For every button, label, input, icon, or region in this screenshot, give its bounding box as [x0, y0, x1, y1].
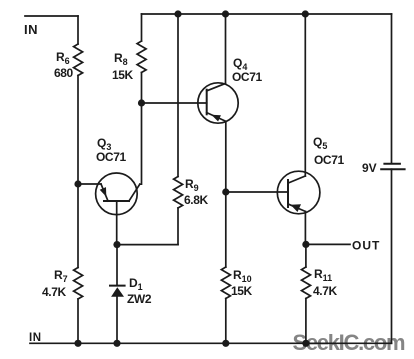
svg-text:R8: R8 — [114, 51, 128, 67]
wire: R8 top lead from rail corner — [141, 14, 143, 41]
svg-text:Q5: Q5 — [313, 135, 327, 151]
junction: Q4 collector on supply rail — [222, 10, 229, 17]
wire: Q4 emitter down to node — [225, 121, 227, 192]
junction: OUT node — [302, 241, 309, 248]
wire: R9 top lead from rail — [177, 14, 179, 177]
wire: node to Q4 base — [142, 102, 207, 104]
wire: node to Q5 base — [226, 191, 288, 193]
transistor Q3 — [78, 136, 140, 215]
wire: node to R9 bottom — [117, 244, 178, 246]
transistor Q4 — [198, 14, 263, 123]
resistor R9 — [174, 177, 209, 209]
wire: R9 bottom lead to node line — [177, 208, 179, 245]
svg-text:R7: R7 — [54, 268, 68, 284]
wire: Q5 emitter down to OUT node — [304, 211, 306, 244]
wire: node down to R10 — [225, 192, 227, 267]
svg-text:680: 680 — [54, 66, 74, 80]
svg-text:4.7K: 4.7K — [42, 285, 66, 299]
diode D1 (zener ZW2) — [110, 245, 152, 344]
svg-text:OUT: OUT — [352, 239, 380, 253]
resistor R10 — [221, 267, 252, 299]
svg-text:D1: D1 — [129, 276, 143, 292]
wire: Q3 base down to node — [116, 201, 118, 245]
svg-text:R9: R9 — [185, 177, 199, 193]
wire: OUT node down to R11 — [305, 244, 307, 267]
wire: OUT lead — [306, 243, 350, 245]
wire: left rail, R6 bottom to Q3 emitter node — [77, 76, 79, 185]
transistor Q5 — [277, 14, 344, 214]
svg-text:15K: 15K — [112, 68, 134, 82]
wire: left rail, R7 bottom to bottom rail — [77, 299, 79, 343]
svg-text:OC71: OC71 — [232, 70, 262, 84]
junction: Q3 emitter node on left rail — [74, 180, 81, 187]
svg-text:9V: 9V — [362, 161, 377, 175]
wire: R8 bottom to node — [141, 73, 143, 104]
wire: R10 bottom to bottom rail — [225, 299, 227, 344]
resistor R6 — [54, 44, 83, 80]
battery B1 9V — [362, 14, 405, 343]
svg-text:R10: R10 — [233, 268, 252, 284]
svg-text:R11: R11 — [314, 267, 332, 283]
wire: node down to Q3 collector — [140, 103, 142, 184]
junction: Q4 emitter / R10 / Q5 base node — [222, 188, 229, 195]
junction: Q5 collector on supply rail — [302, 10, 309, 17]
svg-text:4.7K: 4.7K — [313, 284, 337, 298]
svg-text:15K: 15K — [231, 284, 253, 298]
junction: D1 on bottom rail — [113, 340, 120, 347]
junction: R11 on bottom rail — [302, 340, 309, 347]
junction: Q3 base / R9 / D1 node — [113, 241, 120, 248]
junction: R9 top on supply rail — [174, 10, 181, 17]
wire: left rail, node down to R7 top — [77, 184, 79, 268]
wire: top supply rail — [142, 13, 392, 15]
wire: bottom rail — [30, 342, 392, 344]
svg-text:IN: IN — [29, 332, 42, 344]
junction: R10 on bottom rail — [222, 340, 229, 347]
svg-text:OC71: OC71 — [96, 150, 126, 164]
wire: R11 bottom to bottom rail — [305, 299, 307, 344]
svg-text:OC71: OC71 — [314, 153, 344, 167]
svg-text:IN: IN — [24, 22, 38, 37]
resistor R8 — [112, 41, 146, 82]
resistor R11 — [302, 267, 338, 299]
junction: R8 / Q4 base / Q3 collector node — [138, 99, 145, 106]
resistor R7 — [42, 268, 83, 300]
junction: left rail on bottom rail — [74, 340, 81, 347]
wire: left rail, IN stub down to R6 top — [77, 16, 79, 44]
svg-text:R6: R6 — [56, 50, 70, 66]
svg-text:ZW2: ZW2 — [127, 292, 152, 306]
svg-text:6.8K: 6.8K — [184, 193, 208, 207]
wire: top-left IN stub — [25, 15, 78, 17]
